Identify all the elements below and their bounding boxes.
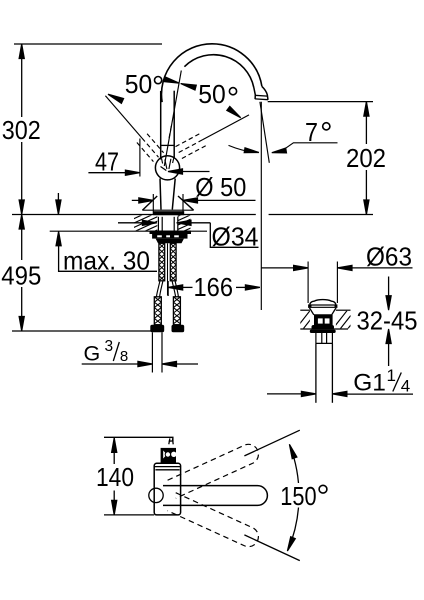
svg-text:202: 202 xyxy=(346,143,386,173)
dimension 47 right arrow xyxy=(168,169,183,174)
dimension O50 ext right xyxy=(182,194,184,214)
sink deck hatching xyxy=(296,311,362,329)
flexible hose right xyxy=(172,281,178,297)
handle tilt-left dashed outline a xyxy=(137,143,154,162)
drain washer 2 xyxy=(310,330,336,333)
dimension G38 arrow right xyxy=(162,361,177,366)
faucet neck right xyxy=(172,179,175,210)
base ring xyxy=(153,211,184,215)
dimension 202 line lower xyxy=(365,170,367,215)
faucet lever right line xyxy=(173,91,175,158)
svg-text:Ø 50: Ø 50 xyxy=(195,172,246,202)
dimension 202 arrow down xyxy=(364,200,369,215)
dimension 140 arrow up xyxy=(112,438,117,453)
dimension 47 line xyxy=(88,172,128,174)
svg-text:302: 302 xyxy=(2,115,41,145)
water stream tilted line xyxy=(260,102,269,163)
hose nut right xyxy=(172,325,185,333)
dimension G38 leader line xyxy=(82,363,139,365)
svg-text:3: 3 xyxy=(105,338,114,355)
angle 7 leader line xyxy=(281,143,338,152)
base cone right xyxy=(178,196,194,210)
dimension 302 line lower xyxy=(21,142,23,215)
dimension 166 line right xyxy=(236,286,245,288)
drain thread block xyxy=(314,315,333,325)
drain cap rim band xyxy=(308,304,337,308)
dimension O50 ext left xyxy=(152,194,154,214)
svg-text:50: 50 xyxy=(198,79,226,109)
hose nut left xyxy=(150,325,164,333)
dimension 166 arrow right xyxy=(245,285,260,290)
dimension 495 line upper xyxy=(21,215,23,261)
dimension 302 arrow up xyxy=(19,44,24,59)
svg-text:Ø63: Ø63 xyxy=(366,241,412,271)
drain taper bottom xyxy=(314,314,332,316)
dimension O50 arrow left xyxy=(139,198,154,203)
angle 7 arc leader xyxy=(229,145,257,152)
dimension O50 arrow right xyxy=(183,198,198,203)
dimension G114 leader line xyxy=(347,393,413,395)
dimension O63 ext right xyxy=(336,262,338,304)
dimension G114 left line xyxy=(267,393,302,395)
svg-text:Ø34: Ø34 xyxy=(212,221,259,251)
dimension O63 line right xyxy=(338,267,413,269)
swivel boundary line upper xyxy=(244,430,299,456)
ball joint xyxy=(155,156,179,180)
svg-text:8: 8 xyxy=(120,348,128,365)
svg-text:G1: G1 xyxy=(353,369,386,396)
swivel arc arrow bottom xyxy=(287,537,295,551)
faucet centerline below deck xyxy=(167,243,169,295)
dimension O50 line right xyxy=(183,199,256,201)
flexible hose left xyxy=(156,281,163,297)
dimension 32-45 shaft top xyxy=(388,277,390,303)
dimension 32-45 shaft bottom xyxy=(388,337,390,367)
dimension max30 arrow down xyxy=(56,200,61,215)
hose fitting right xyxy=(173,297,180,325)
dimension O63 line left xyxy=(262,267,294,269)
hose fitting left xyxy=(154,297,161,325)
handle tilt-right line xyxy=(203,115,250,140)
lever axis dashes xyxy=(169,126,171,139)
swivel boundary line lower xyxy=(244,535,299,561)
G38 tube left line xyxy=(151,332,153,372)
svg-text:max. 30: max. 30 xyxy=(63,245,150,275)
dimension G114 arrow right xyxy=(332,391,347,396)
dimension O34 arrow right xyxy=(177,220,192,225)
dimension 140 arrow down xyxy=(112,500,117,515)
dimension O50 line left xyxy=(132,199,154,201)
water stream vertical line xyxy=(260,102,262,310)
drain cap dome xyxy=(310,300,336,305)
dimension max30 bracket xyxy=(59,246,157,272)
dimension G38 arrow left xyxy=(138,361,153,366)
dimension 32-45 arrow down xyxy=(386,296,391,311)
dimension 166 tick xyxy=(167,281,169,296)
top view pivot circle xyxy=(149,488,163,502)
dimension 495 arrow up xyxy=(19,215,24,230)
handle tilt-left dashed outline b xyxy=(147,134,164,153)
dimension 202 line upper xyxy=(365,102,367,144)
spout aerator outlet xyxy=(254,86,268,99)
angle 7 arc arrow xyxy=(244,148,259,153)
faucet neck left xyxy=(160,179,161,210)
faucet lever bottom edge xyxy=(161,144,174,146)
dimension 47 ext line xyxy=(139,139,141,177)
dimension 47 arrow xyxy=(125,170,139,175)
svg-text:G: G xyxy=(84,341,101,365)
deck cross-section hatching xyxy=(128,182,196,261)
dimension 32-45 arrow up xyxy=(386,329,391,344)
angle 7 leader arrow xyxy=(272,148,287,153)
sink deck top line left xyxy=(300,309,310,311)
counter deck bottom line xyxy=(50,230,207,232)
handle tilt-right dashed outline a xyxy=(181,146,206,159)
counter deck top line right (202 ref) xyxy=(269,214,373,216)
top view body rim line2 xyxy=(155,469,179,471)
dimension 302 line upper xyxy=(21,44,23,117)
angle 50 first arrow left xyxy=(164,77,180,83)
dimension O63 arrow left xyxy=(294,265,309,270)
svg-text:32-45: 32-45 xyxy=(357,306,418,336)
angle 50 second arrow xyxy=(227,106,241,117)
svg-text:495: 495 xyxy=(1,261,41,291)
dimension 47 right line xyxy=(180,171,210,173)
dimension 495 line lower xyxy=(21,287,23,331)
lever axis line xyxy=(164,71,181,167)
dimension O63 ext left xyxy=(307,262,309,304)
base cone bottom xyxy=(142,209,193,211)
sink deck top line right xyxy=(336,309,351,311)
dimension O63 arrow right xyxy=(338,265,353,270)
spout outlet ref line xyxy=(268,101,373,103)
threaded stud left xyxy=(159,243,165,280)
hose end reference line xyxy=(12,330,151,332)
dimension 202 arrow up xyxy=(364,102,369,117)
top view body xyxy=(154,463,180,515)
dimension max30 down arrow shaft xyxy=(57,193,59,201)
dimension 140 bottom ref xyxy=(104,514,154,516)
faucet lever left line xyxy=(160,91,162,160)
dimension G114 arrow left xyxy=(301,391,316,396)
handle tilt-left line xyxy=(105,96,142,138)
swivel arc arrow top xyxy=(289,444,297,458)
dimension O34 line left xyxy=(118,222,144,224)
drain tailpipe left xyxy=(315,343,317,402)
dimension 495 arrow down xyxy=(19,317,24,332)
top view lever body xyxy=(161,448,176,463)
dimension 302 arrow down xyxy=(19,200,24,215)
handle tilt-right dashed centerline xyxy=(178,140,203,153)
dimension max30 arrow up xyxy=(56,231,61,246)
drain taper right xyxy=(332,308,336,315)
dimension O34 arrow left xyxy=(142,220,157,225)
handle tilt-left dashed centerline xyxy=(142,138,159,157)
dimension 166 arrow left xyxy=(168,285,183,290)
svg-text:166: 166 xyxy=(194,272,234,302)
dimension G38 right line xyxy=(177,363,199,365)
ball joint internals xyxy=(161,158,174,171)
base cone left xyxy=(142,196,157,210)
svg-text:140: 140 xyxy=(96,462,134,492)
G38 tube right line xyxy=(161,332,163,372)
svg-text:47: 47 xyxy=(95,147,119,177)
svg-text:50: 50 xyxy=(125,69,153,99)
angle 50 first arrow right xyxy=(181,84,197,90)
drain tail top section xyxy=(316,333,333,343)
svg-text:1: 1 xyxy=(387,366,396,385)
handle tilt-right dashed outline b xyxy=(174,134,199,147)
top view spout swivel position lower xyxy=(168,493,262,550)
drain tailpipe right xyxy=(331,343,333,402)
sink deck bottom line xyxy=(300,328,348,330)
wire top reference line (spout max height) xyxy=(14,43,162,45)
dimension 140 line upper xyxy=(113,438,115,464)
top view lever tip mark xyxy=(169,438,174,444)
svg-text:4: 4 xyxy=(401,377,410,396)
swivel 150 arc xyxy=(288,445,299,549)
counter deck top line left xyxy=(12,214,256,216)
spout inner arc xyxy=(184,55,254,88)
dimension 140 line lower xyxy=(113,491,115,515)
top view spout xyxy=(163,486,267,506)
dimension 166 line left xyxy=(183,286,193,288)
spout outer arc xyxy=(161,44,261,102)
dimension 140 top ref xyxy=(104,437,173,440)
shank wall lines xyxy=(158,217,177,233)
handle tilt-left arrow xyxy=(108,94,124,103)
top view body rim line xyxy=(154,466,180,468)
label 150 deg xyxy=(278,483,318,508)
locknut with seal xyxy=(150,231,192,235)
threaded stud right xyxy=(170,243,176,280)
top view spout swivel position upper xyxy=(168,441,262,498)
drain taper left xyxy=(310,308,314,315)
dimension O34 leader xyxy=(191,223,259,248)
drain washer xyxy=(312,325,335,330)
svg-text:150: 150 xyxy=(280,481,316,511)
